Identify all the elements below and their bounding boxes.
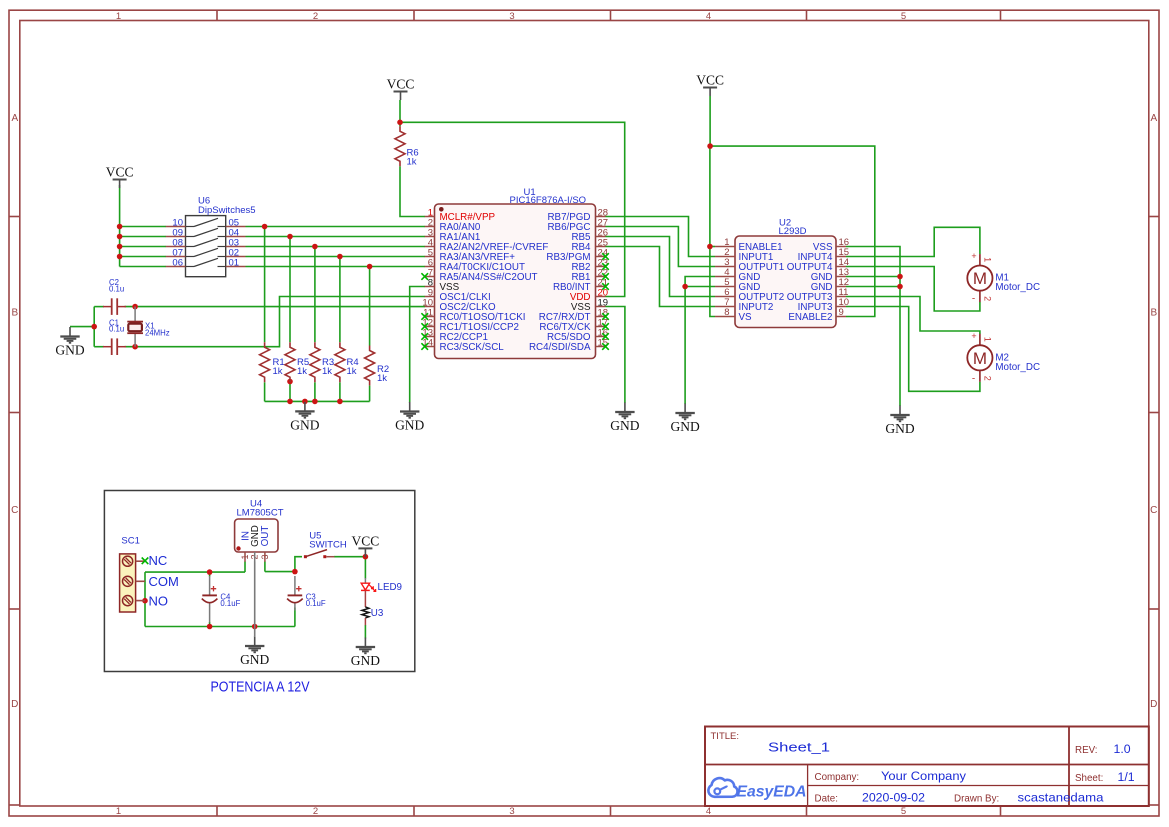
svg-text:D: D bbox=[11, 699, 18, 710]
wire SC1 to C4/U4-IN rail bbox=[145, 571, 245, 573]
capacitor C1 0.1u bbox=[103, 338, 126, 355]
svg-text:24MHz: 24MHz bbox=[145, 328, 170, 337]
wire VCC rail to U1 VDD pin20 bbox=[400, 122, 625, 296]
svg-text:1k: 1k bbox=[347, 366, 357, 377]
pin labels NC COM NO bbox=[149, 553, 179, 608]
svg-text:4: 4 bbox=[706, 11, 711, 22]
IC U2 L293D bbox=[715, 218, 849, 328]
wire U2 INPUT4 pin15 to M1 plus bbox=[846, 227, 980, 256]
svg-text:9: 9 bbox=[839, 307, 844, 318]
wire resistor ground rail bbox=[265, 400, 370, 402]
power flag VCC near U6 bbox=[113, 180, 127, 189]
wire resistor bottom to rail x=339.9 bbox=[339, 382, 341, 401]
svg-text:GND: GND bbox=[55, 343, 84, 358]
resistor U3 bbox=[362, 607, 384, 625]
svg-text:POTENCIA A 12V: POTENCIA A 12V bbox=[211, 680, 310, 696]
svg-text:B: B bbox=[1150, 308, 1157, 319]
regulator U4 LM7805CT bbox=[235, 499, 284, 562]
wire VCC node down to LED bbox=[364, 557, 366, 579]
wire C3 bottom stub bbox=[294, 608, 296, 627]
resistor R5 1k bbox=[285, 342, 309, 382]
wire VCC rail to U6 input row y=266.5 bbox=[120, 266, 166, 268]
wire R2 bottom to rail bbox=[369, 386, 371, 402]
wire U1 RB7 pin28 to U2 INPUT1 bbox=[606, 217, 716, 257]
power flag VCC above U2 bbox=[703, 88, 717, 97]
wire C4 top stub bbox=[209, 572, 211, 576]
wire U4 pin1 drop bbox=[244, 562, 246, 573]
svg-text:LM7805CT: LM7805CT bbox=[237, 508, 284, 519]
svg-text:1: 1 bbox=[982, 337, 992, 342]
svg-text:2: 2 bbox=[982, 296, 992, 301]
connector SC1 screw terminal bbox=[120, 536, 145, 613]
wire SC1 vertical bbox=[144, 572, 146, 626]
wire VCC3 stem down bbox=[709, 96, 711, 146]
wire C3 node up to switch bbox=[295, 557, 302, 572]
ground below U1 VSS pin8 bbox=[400, 402, 419, 418]
svg-text:COM: COM bbox=[149, 574, 179, 589]
svg-text:ENABLE2: ENABLE2 bbox=[788, 312, 832, 323]
wire U2 OUTPUT3 pin11 to M2 plus bbox=[846, 297, 980, 335]
svg-text:1k: 1k bbox=[407, 157, 417, 168]
svg-text:3: 3 bbox=[509, 11, 514, 22]
svg-text:U3: U3 bbox=[371, 608, 384, 619]
svg-text:NO: NO bbox=[149, 593, 169, 608]
svg-text:Sheet:: Sheet: bbox=[1075, 773, 1103, 784]
svg-text:Company:: Company: bbox=[815, 772, 860, 783]
svg-text:Drawn By:: Drawn By: bbox=[954, 794, 999, 805]
svg-text:5: 5 bbox=[901, 806, 906, 817]
wire U1 VSS pin19 to GND bbox=[606, 307, 625, 404]
svg-text:GND: GND bbox=[670, 419, 699, 434]
svg-text:GND: GND bbox=[240, 652, 269, 667]
svg-text:1k: 1k bbox=[377, 373, 387, 384]
frame row letters bbox=[11, 113, 1157, 710]
op-amp / IC U1 PIC16F876A-I/SO bbox=[421, 187, 608, 359]
svg-text:RC4/SDI/SDA: RC4/SDI/SDA bbox=[529, 342, 591, 353]
svg-text:TITLE:: TITLE: bbox=[711, 731, 740, 742]
wire U1 RB6 pin27 to U2 OUTPUT1 bbox=[606, 227, 716, 267]
svg-text:-: - bbox=[972, 294, 975, 305]
wire riser to resistor top x=264.6 bbox=[264, 227, 266, 343]
switch U5 bbox=[304, 531, 347, 559]
motor M1 Motor_DC bbox=[967, 251, 1040, 305]
svg-text:1: 1 bbox=[982, 257, 992, 262]
wire U4 pin2 GND drop bbox=[254, 562, 256, 638]
wire power bottom rail bbox=[145, 626, 295, 628]
capacitor C4 0.1uF bbox=[202, 576, 241, 623]
svg-text:4: 4 bbox=[706, 806, 711, 817]
wire U1 VSS pin8 to GND bbox=[410, 287, 425, 404]
wire U4 OUT to C3 rail bbox=[265, 571, 295, 573]
LED LED9 bbox=[361, 578, 402, 607]
svg-text:GND: GND bbox=[610, 418, 639, 433]
capacitor C3 0.1uF bbox=[287, 576, 326, 611]
svg-text:L293D: L293D bbox=[779, 226, 807, 237]
svg-text:EasyEDA: EasyEDA bbox=[737, 784, 807, 801]
wire stub to C1 left lead bbox=[94, 346, 104, 348]
svg-text:A: A bbox=[11, 113, 18, 124]
svg-text:A: A bbox=[1150, 113, 1157, 124]
svg-text:2020-09-02: 2020-09-02 bbox=[862, 791, 925, 805]
svg-text:RC3/SCK/SCL: RC3/SCK/SCL bbox=[440, 342, 505, 353]
resistor R3 1k bbox=[310, 342, 334, 382]
wire U2 GND pin5 join bbox=[685, 286, 715, 288]
svg-text:Sheet_1: Sheet_1 bbox=[768, 741, 830, 755]
wire C1-C2 left vertical bbox=[93, 307, 95, 347]
wire VCC to U6 rows vertical bbox=[119, 185, 121, 267]
wire U2 GND pin4 to GND symbol bbox=[685, 277, 715, 405]
wire U6 output row y=246.5 to U1 bbox=[246, 246, 426, 248]
svg-text:LED9: LED9 bbox=[378, 582, 403, 593]
wire R6 bottom to U1 MCLR pin1 bbox=[400, 166, 425, 216]
svg-text:1.0: 1.0 bbox=[1114, 742, 1131, 756]
svg-text:Your Company: Your Company bbox=[881, 769, 967, 783]
wire riser to resistor top x=290 bbox=[289, 237, 291, 343]
power flag VCC in power box bbox=[358, 548, 372, 557]
svg-text:DipSwitches5: DipSwitches5 bbox=[198, 205, 256, 216]
wire OSC2 net C2/X1 to U1 pin10 bbox=[125, 306, 426, 308]
svg-text:PIC16F876A-I/SO: PIC16F876A-I/SO bbox=[510, 195, 587, 206]
wire U6 output row y=236.5 to U1 bbox=[246, 236, 426, 238]
svg-text:GND: GND bbox=[351, 653, 380, 668]
svg-text:GND: GND bbox=[885, 421, 914, 436]
svg-text:VS: VS bbox=[739, 312, 753, 323]
svg-text:1: 1 bbox=[116, 11, 121, 22]
resistor R1 1k bbox=[260, 342, 285, 382]
wire U1 RB4 pin25 to U2 INPUT2 bbox=[606, 247, 716, 307]
wire U2 VSS pin16 to GND bbox=[846, 247, 900, 407]
svg-text:06: 06 bbox=[172, 257, 183, 268]
wire U6 output row y=266.5 to U1 bbox=[246, 266, 426, 268]
ground below U2 GND pins bbox=[675, 404, 694, 420]
resistor R2 1k bbox=[365, 346, 390, 386]
wire U2 GND pin13 join bbox=[846, 276, 900, 278]
svg-text:2: 2 bbox=[982, 376, 992, 381]
wire C4 bottom stub bbox=[209, 622, 211, 627]
svg-text:1k: 1k bbox=[297, 366, 307, 377]
wire stub to C2 left lead bbox=[94, 306, 104, 308]
wire riser to resistor top x=369.6 bbox=[369, 267, 371, 346]
wire resistor bottom to rail x=264.6 bbox=[264, 382, 266, 401]
resistor R4 1k bbox=[335, 342, 359, 382]
svg-text:3: 3 bbox=[509, 806, 514, 817]
svg-text:SC1: SC1 bbox=[121, 536, 139, 547]
svg-text:B: B bbox=[11, 308, 18, 319]
wire VCC rail to U2 ENABLE2 pin9 bbox=[710, 146, 875, 316]
resistor R6 1k bbox=[395, 126, 419, 167]
wire U1 RB5 pin26 to U2 OUTPUT2 bbox=[606, 237, 716, 297]
ground below LED resistor bbox=[356, 638, 375, 654]
wire VCC branch to U2 ENABLE1 pin1 bbox=[710, 246, 715, 248]
wire VCC rail to U6 input row y=256.5 bbox=[120, 256, 166, 258]
wire U3 resistor to GND bbox=[364, 625, 366, 639]
svg-text:GND: GND bbox=[290, 417, 319, 432]
crystal X1 24MHz bbox=[127, 307, 169, 347]
wire riser to resistor top x=339.9 bbox=[339, 257, 341, 343]
ground below U1 VSS pin19 bbox=[615, 403, 634, 419]
wire VCC rail to U6 input row y=246.5 bbox=[120, 246, 166, 248]
wire riser to resistor top x=314.9 bbox=[314, 247, 316, 343]
capacitor C2 0.1u bbox=[103, 298, 126, 315]
frame column numbers bbox=[116, 11, 906, 817]
svg-text:SWITCH: SWITCH bbox=[309, 539, 347, 550]
svg-text:0.1u: 0.1u bbox=[109, 284, 124, 293]
wire VCC2 to R6 top bbox=[399, 100, 401, 126]
wire VCC branch to U2 VS pin8 bbox=[710, 146, 715, 316]
wire U6 output row y=256.5 to U1 bbox=[246, 256, 426, 258]
svg-text:Motor_DC: Motor_DC bbox=[995, 362, 1040, 373]
svg-text:2: 2 bbox=[313, 806, 318, 817]
svg-text:2: 2 bbox=[313, 11, 318, 22]
svg-text:0.1uF: 0.1uF bbox=[306, 599, 326, 608]
EasyEDA logo bbox=[708, 778, 737, 797]
svg-text:0.1u: 0.1u bbox=[109, 325, 124, 334]
svg-text:M: M bbox=[973, 269, 987, 288]
svg-text:01: 01 bbox=[229, 257, 240, 268]
wire switch to VCC node bbox=[334, 556, 365, 558]
wire U4 pin3 drop bbox=[264, 562, 266, 572]
svg-text:1k: 1k bbox=[273, 366, 283, 377]
svg-text:C: C bbox=[1150, 505, 1157, 516]
svg-text:C: C bbox=[11, 505, 18, 516]
wire OSC1 net U1 pin9 to C1/X1 bbox=[125, 297, 426, 347]
svg-text:1: 1 bbox=[116, 806, 121, 817]
svg-text:8: 8 bbox=[724, 307, 729, 318]
svg-text:-: - bbox=[972, 373, 975, 384]
svg-text:0.1uF: 0.1uF bbox=[220, 599, 240, 608]
ground below resistor rail bbox=[295, 402, 314, 418]
wire U6 output row y=226.5 to U1 bbox=[246, 226, 426, 228]
title block labels bbox=[711, 731, 1104, 805]
svg-text:GND: GND bbox=[395, 418, 424, 433]
wire resistor bottom to rail x=314.9 bbox=[314, 382, 316, 401]
ground below U2 right GND bbox=[890, 406, 909, 422]
svg-text:D: D bbox=[1150, 699, 1157, 710]
svg-text:OUT: OUT bbox=[260, 526, 271, 547]
svg-text:VCC: VCC bbox=[387, 77, 415, 92]
power flag VCC above R6 bbox=[394, 92, 408, 101]
no-connect X on SC1 NC pin bbox=[142, 558, 149, 565]
svg-text:VCC: VCC bbox=[352, 533, 380, 548]
svg-text:Date:: Date: bbox=[815, 794, 838, 805]
wire VCC rail to U6 input row y=226.5 bbox=[120, 226, 166, 228]
svg-text:REV:: REV: bbox=[1075, 745, 1098, 756]
dip switch U6 DipSwitches5 bbox=[166, 196, 256, 277]
motor M2 Motor_DC bbox=[967, 331, 1040, 385]
svg-text:VCC: VCC bbox=[106, 165, 134, 180]
wire U2 GND pin12 join bbox=[846, 286, 900, 288]
svg-text:M: M bbox=[973, 349, 987, 368]
title block values bbox=[768, 741, 1135, 805]
power section enclosure box bbox=[104, 491, 414, 672]
svg-text:+: + bbox=[971, 251, 976, 261]
svg-text:1k: 1k bbox=[322, 366, 332, 377]
title block bbox=[705, 727, 1149, 807]
svg-text:scastanedama: scastanedama bbox=[1018, 791, 1104, 805]
svg-text:1/1: 1/1 bbox=[1118, 770, 1135, 784]
ground below U4 bbox=[245, 637, 264, 653]
wire resistor bottom to rail x=290 bbox=[289, 382, 291, 401]
wire U2 INPUT3 pin10 to M2 minus bbox=[846, 307, 980, 392]
svg-text:VCC: VCC bbox=[696, 73, 724, 88]
svg-text:5: 5 bbox=[901, 11, 906, 22]
wire branch to GND near X1 bbox=[70, 326, 94, 328]
wire U2 OUTPUT4 pin14 to M1 minus bbox=[846, 267, 980, 312]
svg-text:NC: NC bbox=[149, 553, 168, 568]
svg-text:Motor_DC: Motor_DC bbox=[995, 282, 1040, 293]
wire VCC rail to U6 input row y=236.5 bbox=[120, 236, 166, 238]
svg-text:+: + bbox=[971, 331, 976, 341]
ground near X1 bbox=[60, 327, 79, 343]
